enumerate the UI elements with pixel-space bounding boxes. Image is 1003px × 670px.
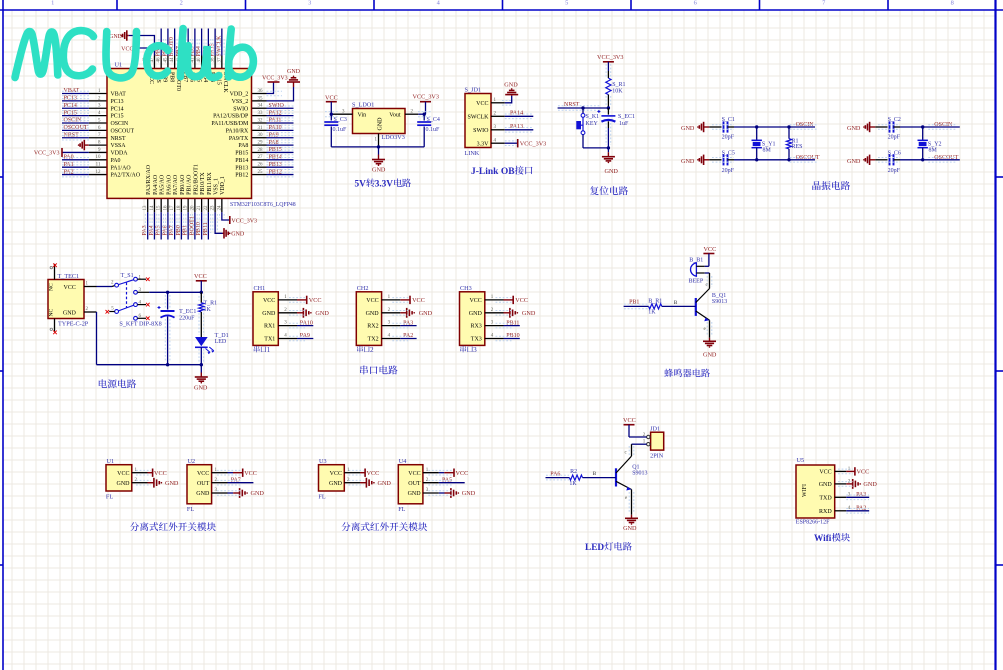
svg-text:S_Y2: S_Y2 xyxy=(928,141,942,147)
svg-text:PB14: PB14 xyxy=(235,158,248,164)
svg-text:GND: GND xyxy=(251,490,265,497)
svg-text:10K: 10K xyxy=(612,89,623,95)
svg-text:13: 13 xyxy=(143,205,148,211)
svg-text:GND: GND xyxy=(623,525,637,532)
svg-text:OSCOUT: OSCOUT xyxy=(796,155,820,161)
svg-text:16: 16 xyxy=(163,205,168,211)
svg-text:3: 3 xyxy=(308,0,311,6)
svg-text:VCC: VCC xyxy=(469,298,481,304)
svg-text:30: 30 xyxy=(258,133,264,138)
svg-text:PA0: PA0 xyxy=(111,158,121,164)
svg-text:VCC: VCC xyxy=(154,470,167,477)
svg-text:VSS_1: VSS_1 xyxy=(214,178,220,195)
svg-text:VCC: VCC xyxy=(64,285,76,291)
svg-text:GND: GND xyxy=(419,310,433,317)
svg-text:3: 3 xyxy=(473,346,477,354)
svg-text:PB0: PB0 xyxy=(176,225,182,235)
svg-text:11: 11 xyxy=(96,163,101,168)
svg-text:PA12/USB/DP: PA12/USB/DP xyxy=(213,114,249,120)
svg-text:OUT: OUT xyxy=(408,481,421,487)
svg-text:PA6: PA6 xyxy=(162,225,168,235)
svg-text:LED: LED xyxy=(215,339,227,345)
svg-text:GND: GND xyxy=(315,310,329,317)
svg-text:RX1: RX1 xyxy=(264,324,275,330)
svg-text:VCC_3V3: VCC_3V3 xyxy=(34,151,60,157)
svg-text:GND: GND xyxy=(703,352,717,359)
svg-text:GND: GND xyxy=(819,482,833,488)
svg-text:TX1: TX1 xyxy=(264,337,275,343)
svg-text:20: 20 xyxy=(190,205,195,211)
svg-text:PB11/RX: PB11/RX xyxy=(207,171,213,194)
svg-text:WIFI: WIFI xyxy=(802,484,808,497)
svg-text:GND: GND xyxy=(681,158,695,165)
svg-text:VCC: VCC xyxy=(263,298,275,304)
svg-text:B_R1: B_R1 xyxy=(648,299,662,305)
svg-text:34: 34 xyxy=(258,104,264,109)
svg-text:GND: GND xyxy=(109,34,123,40)
svg-text:PA7: PA7 xyxy=(169,225,175,235)
svg-text:PB10/TX: PB10/TX xyxy=(200,172,206,195)
svg-text:35: 35 xyxy=(258,96,264,101)
svg-text:19: 19 xyxy=(184,205,189,211)
svg-text:PA9/TX: PA9/TX xyxy=(229,136,249,142)
svg-text:44: 44 xyxy=(170,57,175,63)
svg-text:S_LDO1: S_LDO1 xyxy=(352,102,374,109)
svg-text:PA0: PA0 xyxy=(64,155,74,161)
svg-text:VCC_3V3: VCC_3V3 xyxy=(413,94,439,101)
svg-text:Vin: Vin xyxy=(358,113,367,119)
svg-text:VCC_3V3: VCC_3V3 xyxy=(262,75,288,81)
svg-text:PA10: PA10 xyxy=(300,320,313,326)
svg-text:PC15: PC15 xyxy=(111,114,124,120)
svg-text:15: 15 xyxy=(157,205,162,211)
svg-text:STM32F103C8T6_LQFP48: STM32F103C8T6_LQFP48 xyxy=(230,202,296,208)
svg-text:5: 5 xyxy=(565,0,568,6)
svg-text:33: 33 xyxy=(258,111,264,116)
svg-text:8M: 8M xyxy=(929,147,938,153)
svg-text:VCC: VCC xyxy=(857,469,870,476)
svg-text:PB15: PB15 xyxy=(235,151,248,157)
svg-text:U3: U3 xyxy=(319,458,327,465)
svg-text:32: 32 xyxy=(258,118,264,123)
svg-text:T_EC1: T_EC1 xyxy=(179,309,196,315)
svg-text:S_K1: S_K1 xyxy=(586,114,600,120)
svg-text:1K: 1K xyxy=(569,481,577,487)
svg-text:GND: GND xyxy=(504,81,518,88)
svg-text:PC14: PC14 xyxy=(111,106,124,112)
svg-text:U4: U4 xyxy=(399,458,407,465)
svg-text:PA3: PA3 xyxy=(142,225,148,235)
svg-text:S_JD1: S_JD1 xyxy=(465,87,482,94)
svg-text:LDO3V3: LDO3V3 xyxy=(382,134,405,141)
svg-text:KEY: KEY xyxy=(586,121,599,127)
svg-text:VCC: VCC xyxy=(244,470,257,477)
svg-text:CH2: CH2 xyxy=(357,285,369,292)
svg-text:VCC: VCC xyxy=(366,298,378,304)
svg-text:GND: GND xyxy=(117,481,131,487)
svg-text:FL: FL xyxy=(106,493,113,500)
svg-text:GND: GND xyxy=(196,491,210,497)
svg-text:TX3: TX3 xyxy=(471,337,482,343)
svg-text:S_EC1: S_EC1 xyxy=(618,114,635,120)
svg-text:B: B xyxy=(674,300,678,306)
svg-text:S_KFT DIP-8X8: S_KFT DIP-8X8 xyxy=(119,321,161,328)
svg-text:JD1: JD1 xyxy=(650,426,660,433)
svg-text:B_Q1: B_Q1 xyxy=(712,293,726,299)
svg-text:GND: GND xyxy=(522,310,536,317)
svg-text:2: 2 xyxy=(180,0,183,6)
svg-text:S_Y1: S_Y1 xyxy=(762,141,776,147)
svg-text:PA3/RX/AO: PA3/RX/AO xyxy=(146,164,152,195)
svg-text:RES: RES xyxy=(792,144,803,150)
svg-text:VBAT: VBAT xyxy=(111,92,127,98)
svg-text:FL: FL xyxy=(187,506,194,513)
svg-text:GND: GND xyxy=(63,311,77,317)
svg-text:2PIN: 2PIN xyxy=(650,453,664,460)
svg-text:23: 23 xyxy=(211,205,216,211)
svg-text:37: 37 xyxy=(217,57,222,63)
svg-text:SWIO: SWIO xyxy=(473,128,489,134)
svg-text:PA9: PA9 xyxy=(269,132,279,138)
svg-text:PB1/AO: PB1/AO xyxy=(187,174,193,195)
svg-text:NRST: NRST xyxy=(564,102,580,108)
svg-text:VCC: VCC xyxy=(325,94,338,101)
svg-text:VCC: VCC xyxy=(623,417,636,424)
svg-text:GND: GND xyxy=(329,481,343,487)
svg-text:24: 24 xyxy=(217,205,222,211)
svg-text:GND: GND xyxy=(462,490,476,497)
svg-text:PB1: PB1 xyxy=(183,225,189,235)
svg-text:VCC: VCC xyxy=(197,471,209,477)
svg-text:OSCOUT: OSCOUT xyxy=(111,128,135,134)
svg-text:PA6: PA6 xyxy=(550,471,560,477)
svg-text:PA4: PA4 xyxy=(149,225,155,235)
svg-text:R2: R2 xyxy=(570,469,577,475)
svg-text:PB13: PB13 xyxy=(235,165,248,171)
svg-text:GND: GND xyxy=(287,69,301,75)
svg-text:10: 10 xyxy=(96,155,102,160)
svg-text:29: 29 xyxy=(258,140,264,145)
svg-text:CH1: CH1 xyxy=(254,285,266,292)
svg-text:VSS_2: VSS_2 xyxy=(232,99,249,105)
svg-text:J-Link OB: J-Link OB xyxy=(471,167,515,177)
svg-text:Vout: Vout xyxy=(389,113,401,119)
svg-text:RXD: RXD xyxy=(819,509,832,515)
svg-text:220uF: 220uF xyxy=(179,316,195,322)
svg-text:SWCLK: SWCLK xyxy=(468,114,490,120)
svg-text:Wifi: Wifi xyxy=(814,534,832,544)
svg-text:20pF: 20pF xyxy=(888,168,901,174)
svg-text:S9013: S9013 xyxy=(632,470,647,476)
svg-text:T_S1: T_S1 xyxy=(121,273,134,279)
svg-text:TYPE-C-2P: TYPE-C-2P xyxy=(58,321,89,328)
svg-text:GND: GND xyxy=(847,158,861,165)
svg-text:PA4/AO: PA4/AO xyxy=(153,174,159,195)
svg-text:RX2: RX2 xyxy=(367,324,378,330)
svg-text:PA8: PA8 xyxy=(269,140,279,146)
svg-text:8: 8 xyxy=(951,0,954,6)
svg-text:ESP8266-12F: ESP8266-12F xyxy=(796,520,830,526)
svg-text:14: 14 xyxy=(150,205,155,211)
svg-text:18: 18 xyxy=(177,205,182,211)
svg-text:VDDA: VDDA xyxy=(111,151,129,157)
svg-text:26: 26 xyxy=(258,163,264,168)
svg-text:GND: GND xyxy=(372,166,386,173)
svg-text:FL: FL xyxy=(398,506,405,513)
svg-text:PA6/AO: PA6/AO xyxy=(166,174,172,195)
svg-text:OSCIN: OSCIN xyxy=(111,121,129,127)
svg-text:3.3V: 3.3V xyxy=(477,141,490,147)
svg-text:VCC: VCC xyxy=(456,470,469,477)
svg-text:S_C3: S_C3 xyxy=(334,117,347,123)
svg-text:PB2/BOOT1: PB2/BOOT1 xyxy=(193,164,199,195)
svg-text:U2: U2 xyxy=(188,458,196,465)
svg-text:46: 46 xyxy=(157,57,162,63)
svg-text:U1: U1 xyxy=(107,458,115,465)
svg-text:S9013: S9013 xyxy=(712,299,727,305)
svg-text:GND: GND xyxy=(378,480,392,487)
svg-text:VSSA: VSSA xyxy=(111,143,127,149)
svg-text:PA7/AO: PA7/AO xyxy=(173,174,179,195)
svg-text:CH3: CH3 xyxy=(460,285,472,292)
svg-text:GND: GND xyxy=(605,168,619,175)
svg-text:21: 21 xyxy=(197,205,202,211)
svg-text:GND: GND xyxy=(194,385,208,392)
svg-text:2: 2 xyxy=(370,346,374,354)
svg-text:31: 31 xyxy=(258,126,264,131)
svg-text:FL: FL xyxy=(318,493,325,500)
svg-text:VCC_3V3: VCC_3V3 xyxy=(231,218,257,224)
svg-text:0.1uF: 0.1uF xyxy=(333,127,348,133)
svg-text:PA1/AO: PA1/AO xyxy=(111,165,132,171)
svg-text:VCC_3V3: VCC_3V3 xyxy=(520,140,546,147)
svg-text:T_TEC1: T_TEC1 xyxy=(58,273,80,280)
svg-text:SWIO: SWIO xyxy=(233,106,249,112)
svg-text:0.1uF: 0.1uF xyxy=(426,127,441,133)
svg-text:PA11/USB/DM: PA11/USB/DM xyxy=(211,121,249,127)
svg-text:S_C1: S_C1 xyxy=(722,117,735,123)
svg-text:U5: U5 xyxy=(797,457,805,464)
svg-text:1: 1 xyxy=(51,0,54,6)
svg-text:GND: GND xyxy=(863,481,877,488)
svg-text:VDD_1: VDD_1 xyxy=(220,176,226,195)
svg-text:20pF: 20pF xyxy=(722,135,735,141)
svg-text:PB1: PB1 xyxy=(629,299,639,305)
svg-text:PB12: PB12 xyxy=(235,173,248,179)
svg-text:12: 12 xyxy=(96,170,102,175)
svg-text:45: 45 xyxy=(163,57,168,63)
svg-text:LINK: LINK xyxy=(465,150,480,157)
svg-text:T_D1: T_D1 xyxy=(215,333,229,339)
svg-text:OSCOUT: OSCOUT xyxy=(934,155,958,161)
svg-text:VCC: VCC xyxy=(309,297,322,304)
svg-text:S_C4: S_C4 xyxy=(427,117,440,123)
svg-text:PA10/RX: PA10/RX xyxy=(226,128,249,134)
svg-text:OUT: OUT xyxy=(197,481,210,487)
svg-text:VCC_3V3: VCC_3V3 xyxy=(597,54,623,61)
svg-text:GND: GND xyxy=(469,311,483,317)
svg-text:PA2/TX/AO: PA2/TX/AO xyxy=(111,173,141,179)
svg-text:PA2: PA2 xyxy=(64,169,74,175)
svg-text:GND: GND xyxy=(847,125,861,132)
svg-text:1K: 1K xyxy=(648,310,656,316)
svg-text:38: 38 xyxy=(211,57,216,63)
svg-text:28: 28 xyxy=(258,148,264,153)
svg-text:36: 36 xyxy=(258,89,264,94)
svg-text:NC: NC xyxy=(49,308,55,316)
svg-text:GND: GND xyxy=(408,491,422,497)
svg-text:20pF: 20pF xyxy=(888,135,901,141)
svg-text:PA1: PA1 xyxy=(64,162,74,168)
svg-text:PB11: PB11 xyxy=(506,320,519,326)
svg-text:PA8: PA8 xyxy=(238,143,248,149)
svg-text:NC: NC xyxy=(49,283,55,291)
svg-text:TX2: TX2 xyxy=(368,337,379,343)
svg-text:GND: GND xyxy=(165,480,179,487)
svg-text:PA5: PA5 xyxy=(156,225,162,235)
svg-text:S_C2: S_C2 xyxy=(888,117,901,123)
svg-text:S_C6: S_C6 xyxy=(888,151,901,157)
svg-text:1uF: 1uF xyxy=(619,121,629,127)
svg-text:VCC: VCC xyxy=(476,101,488,107)
svg-text:5V: 5V xyxy=(355,179,367,189)
svg-text:GND: GND xyxy=(231,232,245,238)
svg-text:B_B1: B_B1 xyxy=(689,257,703,263)
svg-text:VCC: VCC xyxy=(117,471,129,477)
svg-text:PB10: PB10 xyxy=(506,333,519,339)
svg-text:8M: 8M xyxy=(763,147,772,153)
svg-text:1: 1 xyxy=(267,346,271,354)
svg-text:GND: GND xyxy=(378,117,384,131)
svg-text:25: 25 xyxy=(258,170,264,175)
svg-text:S_R1: S_R1 xyxy=(612,82,625,88)
svg-text:22: 22 xyxy=(204,205,209,211)
svg-text:40: 40 xyxy=(197,57,202,63)
svg-text:VCC: VCC xyxy=(515,297,528,304)
svg-text:S_C5: S_C5 xyxy=(722,151,735,157)
svg-text:NRST: NRST xyxy=(111,136,126,142)
svg-text:GND: GND xyxy=(366,311,380,317)
svg-text:17: 17 xyxy=(170,205,175,211)
svg-text:U1: U1 xyxy=(115,62,123,69)
svg-text:B: B xyxy=(593,471,597,477)
svg-text:VCC: VCC xyxy=(330,471,342,477)
svg-text:VCC: VCC xyxy=(819,470,831,476)
svg-text:VCC: VCC xyxy=(367,470,380,477)
svg-text:20pF: 20pF xyxy=(722,168,735,174)
svg-text:SWCLK: SWCLK xyxy=(216,35,222,57)
svg-text:GND: GND xyxy=(681,125,695,132)
svg-text:VCC: VCC xyxy=(408,471,420,477)
svg-text:TXD: TXD xyxy=(819,495,832,501)
svg-text:VCC: VCC xyxy=(412,297,425,304)
svg-text:BEEP: BEEP xyxy=(689,278,704,284)
svg-text:VCC: VCC xyxy=(194,273,207,280)
svg-text:PB0/AO: PB0/AO xyxy=(180,174,186,195)
svg-text:LED: LED xyxy=(585,543,604,553)
svg-text:PC13: PC13 xyxy=(111,99,124,105)
svg-text:VDD_2: VDD_2 xyxy=(230,92,249,98)
svg-text:PA5/AO: PA5/AO xyxy=(160,174,166,195)
svg-text:1K: 1K xyxy=(204,307,212,313)
svg-text:RX3: RX3 xyxy=(470,324,481,330)
svg-text:27: 27 xyxy=(258,155,264,160)
svg-text:T_R1: T_R1 xyxy=(204,301,218,307)
svg-text:VCC: VCC xyxy=(121,46,133,52)
svg-text:3.3V: 3.3V xyxy=(375,179,394,189)
svg-text:GND: GND xyxy=(262,311,276,317)
svg-text:6: 6 xyxy=(694,0,697,6)
svg-text:VCC: VCC xyxy=(704,246,717,253)
